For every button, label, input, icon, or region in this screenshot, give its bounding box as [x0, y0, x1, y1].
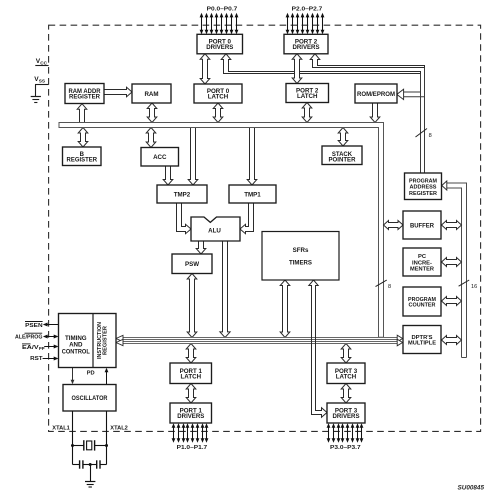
- arrow: oscillator to instruction register: [106, 370, 108, 385]
- port 0 drivers: [197, 34, 243, 54]
- svg-text:RST: RST: [30, 356, 43, 362]
- arrow: port 1 latch / port 1 drivers: [186, 384, 196, 404]
- arrow: RAM / bus: [147, 103, 157, 123]
- arrow: bus2 / port 1 latch: [186, 344, 196, 364]
- ROM/EPROM: [355, 84, 397, 103]
- svg-text:DRIVERS: DRIVERS: [293, 44, 320, 51]
- svg-text:REGISTER: REGISTER: [67, 157, 98, 163]
- capacitor C1: [73, 460, 91, 468]
- svg-text:LATCH: LATCH: [297, 93, 318, 100]
- RAM addr register: [65, 84, 104, 104]
- arrowhead into program address register: [442, 181, 447, 190]
- capacitor C2: [90, 460, 106, 468]
- stack pointer: [322, 146, 362, 165]
- chip boundary (dashed): [49, 25, 481, 431]
- svg-text:P2.0–P2.7: P2.0–P2.7: [292, 7, 323, 13]
- arrow: RAM addr register to RAM: [104, 87, 132, 97]
- svg-text:CC: CC: [40, 61, 47, 66]
- arrow: pc incrementer / right bus: [442, 258, 462, 267]
- TMP1: [229, 185, 276, 203]
- TMP2: [157, 185, 207, 203]
- ground symbol (crystal): [85, 465, 95, 488]
- arrow: left bus / buffer: [384, 221, 404, 230]
- svg-text:XTAL1: XTAL1: [52, 425, 70, 431]
- svg-text:PSW: PSW: [185, 261, 199, 268]
- ground symbol (VSS): [31, 97, 41, 103]
- RAM: [132, 84, 171, 103]
- port 2 drivers: [284, 34, 328, 54]
- svg-text:ROM/EPROM: ROM/EPROM: [357, 92, 395, 98]
- svg-text:POINTER: POINTER: [329, 158, 357, 164]
- port 2 latch: [286, 84, 329, 103]
- VSS pin: [34, 76, 48, 96]
- arrow: timing to oscillator (PD): [72, 368, 74, 383]
- arrow: port 0 drivers / port 0 latch: [200, 54, 210, 84]
- svg-text:BUFFER: BUFFER: [410, 223, 435, 229]
- svg-text:ADDRESS: ADDRESS: [410, 185, 437, 191]
- svg-text:REGISTER: REGISTER: [103, 325, 109, 355]
- arrow: bus to RAM addr register: [77, 104, 87, 123]
- svg-text:8: 8: [388, 284, 391, 290]
- port 0 latch: [194, 84, 242, 103]
- VCC pin: [35, 58, 48, 66]
- svg-text:LATCH: LATCH: [336, 373, 357, 380]
- svg-text:RAM: RAM: [144, 91, 158, 98]
- svg-text:P0.0–P0.7: P0.0–P0.7: [207, 7, 238, 13]
- PC incrementer: [403, 248, 441, 276]
- svg-text:PSEN: PSEN: [25, 323, 43, 329]
- port 2 pins P2.0-P2.7: [286, 13, 325, 35]
- wire: address low byte to port 0 drivers: [221, 54, 420, 74]
- program counter: [403, 287, 441, 316]
- buffer: [403, 211, 441, 239]
- program address register: [405, 173, 442, 200]
- svg-text:SFRs: SFRs: [293, 247, 309, 254]
- svg-text:16: 16: [471, 284, 477, 290]
- arrow: bus to TMP1: [247, 128, 257, 186]
- arrow: SFRs / bus2: [280, 280, 290, 338]
- wire XTAL1: [72, 411, 74, 465]
- arrow: port 0 latch / bus: [213, 103, 223, 123]
- main internal bus (upper): [59, 123, 384, 338]
- svg-text:TMP1: TMP1: [244, 191, 261, 198]
- arrow: ROM to bus: [370, 103, 380, 123]
- wire: program address register to ROM (address bus): [401, 68, 425, 174]
- svg-text:PROGRAM: PROGRAM: [409, 178, 437, 184]
- port 3 pins P3.0-P3.7: [327, 423, 364, 443]
- ACC: [141, 148, 179, 167]
- oscillator: [63, 385, 116, 412]
- svg-text:DRIVERS: DRIVERS: [177, 413, 204, 420]
- ALU: [191, 217, 240, 241]
- arrow: bus to TMP2: [188, 128, 198, 186]
- arrow: bus / ACC: [146, 128, 156, 148]
- pin EA/VPP: [22, 344, 59, 351]
- SFRs / timers: [262, 232, 339, 281]
- svg-text:TMP2: TMP2: [174, 191, 191, 198]
- pin PSEN: [25, 322, 59, 330]
- pin RST: [30, 356, 58, 362]
- svg-text:OSCILLATOR: OSCILLATOR: [72, 396, 109, 402]
- svg-text:COUNTER: COUNTER: [409, 303, 437, 309]
- port 3 latch: [327, 363, 365, 384]
- arrow: port 2 latch / bus: [302, 103, 312, 123]
- pin ALE/PROG: [15, 333, 59, 340]
- arrow: TMP1 to ALU: [240, 203, 254, 234]
- DPTR's multiple: [403, 326, 441, 354]
- crystal Y1: [73, 440, 107, 450]
- svg-text:P1.0–P1.7: P1.0–P1.7: [177, 445, 208, 451]
- arrow: bus / stack pointer: [338, 128, 348, 147]
- internal bus 2 line A: [116, 335, 403, 342]
- wire: address high byte to port 2 drivers: [310, 54, 424, 68]
- arrow: PSW / bus2: [187, 274, 197, 338]
- arrow: TMP2 to ALU: [177, 203, 192, 234]
- svg-text:REGISTER: REGISTER: [69, 95, 101, 101]
- port 1 pins P1.0-P1.7: [172, 423, 209, 443]
- svg-text:ALE/PROG: ALE/PROG: [15, 334, 43, 340]
- svg-text:MENTER: MENTER: [410, 267, 435, 273]
- wire XTAL2: [106, 411, 108, 465]
- svg-text:DRIVERS: DRIVERS: [206, 44, 233, 51]
- svg-text:MULTIPLE: MULTIPLE: [408, 341, 436, 347]
- port 3 drivers: [327, 403, 365, 423]
- svg-text:TIMERS: TIMERS: [289, 260, 312, 267]
- svg-text:PP: PP: [39, 346, 45, 351]
- svg-text:CONTROL: CONTROL: [62, 349, 90, 356]
- port 0 pins P0.0-P0.7: [200, 13, 239, 35]
- bus width marker 8 (left vertical bus): [376, 280, 387, 287]
- arrow: ACC to TMP2: [163, 166, 173, 185]
- svg-text:ALU: ALU: [208, 227, 221, 234]
- bus width marker 16: [459, 280, 470, 286]
- arrow: program counter / right bus: [442, 297, 462, 306]
- junction dot XTAL2: [105, 444, 108, 447]
- internal bus 2 line B: [116, 339, 403, 346]
- svg-text:SU00845: SU00845: [458, 486, 485, 492]
- arrow: SFRs / port 3 drivers: [309, 280, 327, 417]
- junction dot XTAL1: [71, 444, 74, 447]
- bus width marker 8 (address bus): [416, 129, 428, 138]
- port 1 drivers: [170, 403, 212, 423]
- svg-text:EA/V: EA/V: [22, 345, 39, 351]
- junction dot C1/C2: [89, 463, 92, 466]
- svg-text:SS: SS: [39, 79, 45, 84]
- svg-text:ACC: ACC: [153, 154, 167, 161]
- arrow: port 2 drivers / port 2 latch: [292, 54, 302, 84]
- arrow: ALU to PSW: [196, 241, 206, 254]
- svg-text:INCRE-: INCRE-: [412, 260, 432, 266]
- arrow: port 3 latch / port 3 drivers: [341, 384, 351, 404]
- arrow: bus / B register: [78, 128, 88, 148]
- svg-text:8: 8: [429, 133, 432, 139]
- timing and control / instruction register: [59, 314, 117, 368]
- svg-text:LATCH: LATCH: [181, 373, 202, 380]
- svg-text:XTAL2: XTAL2: [110, 425, 128, 431]
- port 1 latch: [170, 363, 212, 384]
- arrow: bus2 / port 3 latch: [341, 344, 351, 364]
- arrow: dptr / right bus: [442, 336, 462, 345]
- svg-text:REGISTER: REGISTER: [409, 191, 438, 197]
- svg-text:DRIVERS: DRIVERS: [333, 413, 360, 420]
- arrowhead into ROM/EPROM right side: [397, 89, 404, 99]
- PSW: [172, 254, 212, 274]
- wire segment: SFR/port3 shaft over bus2: [311, 336, 313, 345]
- svg-text:P3.0–P3.7: P3.0–P3.7: [330, 445, 361, 451]
- B register: [63, 147, 102, 166]
- svg-text:PD: PD: [87, 370, 95, 376]
- wire: ALU to internal bus 2: [220, 241, 230, 338]
- svg-text:LATCH: LATCH: [208, 94, 229, 101]
- svg-text:PC: PC: [418, 254, 427, 260]
- wire: 16-bit bus right column: [446, 183, 467, 358]
- arrow: buffer / right bus: [442, 221, 462, 230]
